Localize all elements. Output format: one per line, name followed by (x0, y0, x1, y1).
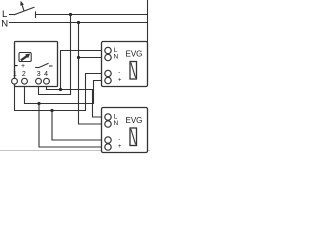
switch S1 blade (14, 7, 34, 14)
wire right vertical to EVG1 (147, 0, 149, 42)
switch S1 arrow head (20, 1, 24, 6)
node dot EVG1 N branch (77, 56, 80, 59)
wire branch EVG2 minus (52, 111, 102, 141)
wire branch EVG1 L (61, 51, 102, 90)
node dot L line (69, 13, 72, 16)
svg-text:3: 3 (37, 71, 41, 78)
wire L line (36, 14, 148, 16)
wire terminal 2 plus bus (25, 81, 102, 104)
EVG2 box (102, 108, 148, 153)
junction dots (37, 13, 80, 112)
contact 3-4 symbol (35, 63, 52, 67)
dimmer symbol (19, 53, 31, 62)
wire L riser to terminal 3 (39, 15, 71, 95)
EVG1 box (102, 42, 148, 87)
svg-text:2: 2 (22, 71, 26, 78)
EVG2 terminal L (105, 114, 111, 120)
terminal 2 (22, 78, 28, 84)
label minus U1 (14, 65, 17, 67)
svg-text:+: + (118, 144, 122, 150)
svg-text:N: N (1, 18, 8, 29)
switch S1 actuation arrow shaft (22, 5, 24, 10)
svg-text:-: - (118, 137, 120, 143)
node dot minus bus (50, 109, 53, 112)
EVG1 terminal L (105, 47, 111, 53)
EVG1 lamp symbol (130, 62, 137, 80)
svg-text:EVG: EVG (126, 116, 143, 125)
wire terminal 4 to EVG L bus (47, 86, 102, 117)
faint bottom rule (0, 150, 150, 152)
EVG2 lamp symbol (130, 128, 137, 146)
terminal 3 (36, 78, 42, 84)
EVG1 terminal minus (105, 70, 111, 76)
wire N riser feeding EVG1 N and EVG2 N (79, 23, 102, 125)
svg-text:N: N (114, 54, 119, 61)
EVG1 terminal N (105, 54, 111, 60)
node dot EVG L bus (59, 88, 62, 91)
svg-text:4: 4 (44, 71, 48, 78)
control unit U1 box (15, 42, 58, 87)
EVG2 terminal minus (105, 137, 111, 143)
wire terminal 1 minus bus (15, 74, 102, 111)
node dot N line (77, 21, 80, 24)
EVG2 terminal N (105, 121, 111, 127)
svg-text:1: 1 (13, 71, 17, 78)
wire N line (10, 22, 148, 24)
svg-text:N: N (114, 120, 119, 127)
wire L stub (10, 14, 15, 16)
wire branch EVG2 plus (39, 104, 102, 148)
EVG2 terminal plus (105, 144, 111, 150)
EVG1 terminal plus (105, 77, 111, 83)
node dot plus bus (37, 102, 40, 105)
svg-text:+: + (118, 77, 122, 83)
terminal circles U1 (12, 78, 50, 84)
switch S1 fixed contact bar (35, 12, 37, 18)
svg-text:+: + (21, 63, 25, 70)
svg-text:EVG: EVG (126, 50, 143, 59)
wire EVG1 N branch (79, 57, 102, 59)
svg-text:-: - (118, 70, 120, 76)
terminal 1 (12, 78, 18, 84)
terminal 4 (44, 78, 50, 84)
